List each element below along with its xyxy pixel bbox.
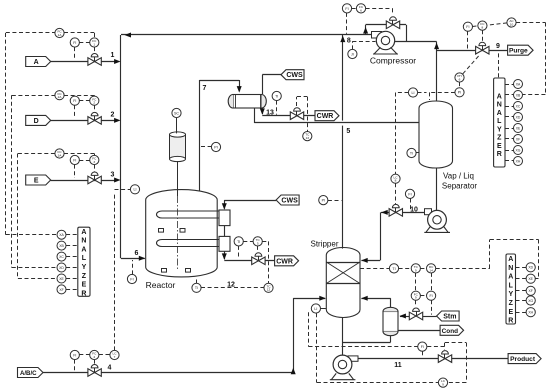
- svg-text:R: R: [497, 151, 502, 158]
- svg-text:Separator: Separator: [442, 182, 477, 191]
- svg-text:Reactor: Reactor: [146, 280, 176, 290]
- svg-text:9: 9: [415, 296, 417, 300]
- svg-text:L: L: [497, 118, 502, 125]
- svg-text:E: E: [497, 143, 502, 150]
- svg-text:XD: XD: [516, 115, 521, 119]
- svg-text:XE: XE: [59, 277, 64, 281]
- svg-text:Product: Product: [510, 356, 536, 363]
- svg-text:TI: TI: [275, 94, 278, 98]
- svg-text:3: 3: [111, 172, 115, 179]
- svg-text:XB: XB: [516, 93, 521, 97]
- svg-text:XA: XA: [59, 233, 64, 237]
- svg-text:2: 2: [93, 101, 95, 105]
- svg-text:FI: FI: [466, 25, 469, 29]
- svg-text:Y: Y: [82, 264, 87, 271]
- svg-text:TI: TI: [237, 240, 240, 244]
- svg-text:9: 9: [442, 383, 444, 387]
- svg-text:5: 5: [346, 128, 350, 135]
- svg-text:R: R: [81, 290, 86, 297]
- svg-text:6: 6: [360, 8, 362, 12]
- svg-text:FI: FI: [421, 345, 424, 349]
- svg-text:10: 10: [410, 207, 418, 214]
- svg-text:XG: XG: [516, 148, 521, 152]
- svg-text:TI: TI: [410, 151, 413, 155]
- svg-text:D: D: [34, 118, 39, 125]
- svg-text:12: 12: [227, 281, 235, 288]
- svg-text:8: 8: [482, 26, 484, 30]
- svg-text:N: N: [497, 102, 502, 109]
- svg-text:FI: FI: [73, 41, 76, 45]
- svg-text:13: 13: [306, 136, 310, 140]
- svg-text:13: 13: [266, 110, 274, 117]
- svg-text:Stm: Stm: [443, 314, 456, 321]
- svg-text:A/B/C: A/B/C: [20, 370, 37, 377]
- svg-text:Cond: Cond: [442, 328, 458, 335]
- svg-text:LI: LI: [134, 188, 137, 192]
- svg-text:XF: XF: [59, 288, 63, 292]
- svg-text:XH: XH: [528, 311, 533, 315]
- svg-text:A: A: [81, 229, 86, 236]
- svg-text:XF: XF: [529, 289, 533, 293]
- svg-text:7: 7: [114, 355, 116, 359]
- svg-text:XC: XC: [516, 104, 521, 108]
- svg-text:A: A: [508, 274, 513, 281]
- svg-text:Purge: Purge: [509, 48, 528, 55]
- svg-text:4: 4: [108, 365, 112, 372]
- svg-text:XB: XB: [59, 244, 64, 248]
- svg-text:FI: FI: [429, 294, 432, 298]
- svg-text:Z: Z: [497, 135, 502, 142]
- svg-text:FI: FI: [73, 99, 76, 103]
- svg-text:Y: Y: [508, 291, 513, 298]
- svg-text:PI: PI: [458, 91, 461, 95]
- svg-text:XA: XA: [516, 82, 521, 86]
- svg-text:XF: XF: [516, 137, 520, 141]
- svg-text:E: E: [34, 178, 39, 185]
- svg-text:9: 9: [415, 268, 417, 272]
- svg-text:Stripper: Stripper: [310, 240, 338, 249]
- svg-text:14: 14: [429, 268, 433, 272]
- svg-text:N: N: [508, 265, 513, 272]
- svg-text:CWS: CWS: [281, 198, 298, 205]
- svg-text:R: R: [508, 318, 513, 325]
- svg-text:JI: JI: [351, 52, 354, 56]
- svg-text:CWR: CWR: [317, 113, 334, 120]
- svg-text:6: 6: [135, 250, 139, 257]
- svg-text:7: 7: [203, 85, 207, 92]
- svg-text:XC: XC: [59, 255, 64, 259]
- svg-text:A: A: [81, 246, 86, 253]
- svg-text:FI: FI: [130, 277, 133, 281]
- svg-text:L: L: [509, 282, 514, 289]
- svg-text:TI: TI: [195, 286, 198, 290]
- svg-text:FI: FI: [73, 353, 76, 357]
- svg-text:LI: LI: [412, 91, 415, 95]
- svg-text:10: 10: [510, 22, 514, 26]
- svg-text:6: 6: [459, 77, 461, 81]
- svg-text:PI: PI: [214, 145, 217, 149]
- svg-text:5: 5: [257, 241, 259, 245]
- svg-text:SC: SC: [174, 111, 179, 115]
- svg-text:11: 11: [394, 362, 402, 369]
- svg-text:A: A: [497, 110, 502, 117]
- svg-text:CWS: CWS: [286, 72, 303, 79]
- svg-text:12: 12: [267, 288, 271, 292]
- svg-text:A: A: [497, 94, 502, 101]
- svg-text:9: 9: [496, 43, 500, 50]
- svg-text:N: N: [81, 238, 86, 245]
- svg-text:FI: FI: [408, 192, 411, 196]
- svg-text:L: L: [82, 255, 87, 262]
- svg-text:E: E: [508, 309, 513, 316]
- svg-text:FI: FI: [345, 7, 348, 11]
- svg-text:A: A: [34, 59, 39, 66]
- svg-text:4: 4: [93, 355, 95, 359]
- svg-text:Z: Z: [509, 300, 514, 307]
- svg-text:1: 1: [93, 42, 95, 46]
- svg-text:TI: TI: [392, 267, 395, 271]
- svg-text:XD: XD: [528, 266, 533, 270]
- svg-text:XD: XD: [59, 266, 64, 270]
- svg-text:PI: PI: [322, 199, 325, 203]
- svg-text:LI: LI: [314, 307, 317, 311]
- svg-text:Vap / Liq: Vap / Liq: [443, 172, 474, 181]
- svg-text:3: 3: [93, 160, 95, 164]
- svg-text:Compressor: Compressor: [370, 56, 416, 66]
- svg-text:2: 2: [111, 112, 115, 119]
- svg-text:Y: Y: [497, 126, 502, 133]
- svg-text:E: E: [82, 282, 87, 289]
- svg-text:CWR: CWR: [276, 258, 293, 265]
- svg-text:A: A: [508, 256, 513, 263]
- svg-text:8: 8: [395, 179, 397, 183]
- svg-text:Z: Z: [82, 273, 87, 280]
- svg-text:XH: XH: [516, 159, 521, 163]
- svg-text:XG: XG: [528, 299, 533, 303]
- svg-text:XE: XE: [516, 126, 521, 130]
- svg-text:8: 8: [347, 38, 351, 45]
- svg-text:XE: XE: [528, 277, 533, 281]
- svg-text:FI: FI: [73, 158, 76, 162]
- svg-text:1: 1: [111, 52, 115, 59]
